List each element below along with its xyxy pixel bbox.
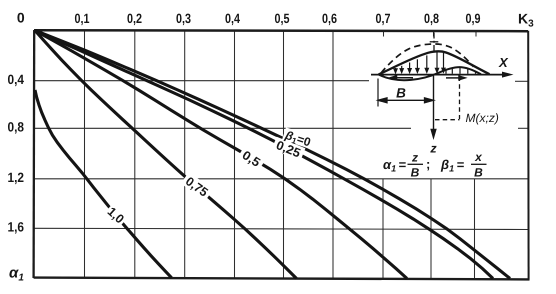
inset: small sine curve (below then above line)	[379, 67, 482, 80]
curve beta1=0.25	[35, 31, 493, 279]
svg-text:x: x	[474, 150, 483, 164]
vertical gridline 0.8 lower part	[430, 179, 432, 279]
inset: distributed load down-arrows	[394, 52, 445, 73]
svg-text:X: X	[498, 55, 509, 70]
svg-text:0,6: 0,6	[322, 11, 337, 26]
inset: right shear arrow below line	[446, 76, 465, 80]
svg-text:B: B	[396, 86, 406, 101]
right border	[527, 31, 529, 280]
svg-text:1,6: 1,6	[8, 220, 25, 235]
left border	[32, 30, 35, 278]
inset: hatch ticks in small right hump	[446, 67, 476, 74]
top border	[34, 30, 528, 31]
svg-text:0,5: 0,5	[275, 11, 290, 26]
svg-text:1,2: 1,2	[8, 170, 25, 185]
tick 0.8 top	[433, 31, 435, 37]
svg-text:M(x;z): M(x;z)	[466, 111, 499, 125]
vertical gridline 0.7 lower part	[382, 179, 384, 278]
vertical gridline 0.6	[332, 31, 334, 279]
label halo beta1=0	[282, 127, 319, 150]
svg-text:0,8: 0,8	[424, 11, 439, 26]
inset: dash-dot center line	[430, 33, 439, 53]
svg-text:0,3: 0,3	[176, 11, 191, 26]
label halo 1,0	[104, 204, 128, 227]
svg-text:z: z	[429, 142, 437, 156]
inset: left shear arrow below line	[391, 76, 414, 80]
horizontal gridline 0.8	[34, 127, 411, 129]
svg-text:0,2: 0,2	[127, 11, 142, 26]
vertical gridline 0.3	[184, 31, 186, 279]
svg-text:B: B	[474, 166, 483, 180]
tick 0.9 top	[475, 31, 477, 37]
chart frame	[34, 30, 530, 280]
inset: dashed line to M point	[435, 77, 460, 120]
vertical gridline 0.1	[84, 31, 86, 279]
bottom border	[34, 278, 530, 280]
inset: z axis line with arrow	[431, 75, 436, 138]
tick 0.7 top	[383, 31, 385, 37]
svg-text:;: ;	[426, 157, 430, 172]
horizontal gridline 1.6	[34, 228, 528, 229]
vertical gridline 0.5	[283, 31, 285, 279]
svg-text:0,4: 0,4	[225, 11, 240, 26]
curve beta1=0	[35, 31, 510, 279]
inset: ground line with X axis arrow	[371, 72, 514, 78]
inset: big load hump curve	[379, 51, 490, 74]
curve beta1=0.75	[35, 31, 297, 279]
svg-text:0,9: 0,9	[466, 11, 481, 26]
label halo 0,75	[181, 172, 213, 201]
svg-text:0: 0	[17, 10, 25, 26]
curve beta1=0.5	[35, 31, 407, 279]
inset: dashed envelope curve	[381, 44, 474, 73]
svg-text:0,1: 0,1	[75, 11, 90, 26]
svg-text:0,8: 0,8	[8, 120, 25, 135]
label halo 0,25	[272, 137, 306, 161]
vertical gridline 0.9 lower part	[474, 179, 476, 279]
vertical gridline 0.2	[134, 31, 136, 279]
svg-text:z: z	[411, 151, 418, 165]
vertical gridline 0.4	[234, 31, 236, 279]
curve beta1=1.0	[35, 90, 172, 278]
label halo 0,5	[237, 146, 266, 171]
svg-text:0,7: 0,7	[376, 11, 391, 26]
inset: B dimension arrow	[378, 79, 434, 107]
horizontal gridline 1.2	[34, 178, 528, 180]
svg-text:B: B	[411, 166, 420, 180]
horizontal gridline 0.4	[34, 80, 369, 82]
svg-text:0,4: 0,4	[8, 72, 25, 87]
formula alpha1 = z/B	[383, 150, 487, 180]
